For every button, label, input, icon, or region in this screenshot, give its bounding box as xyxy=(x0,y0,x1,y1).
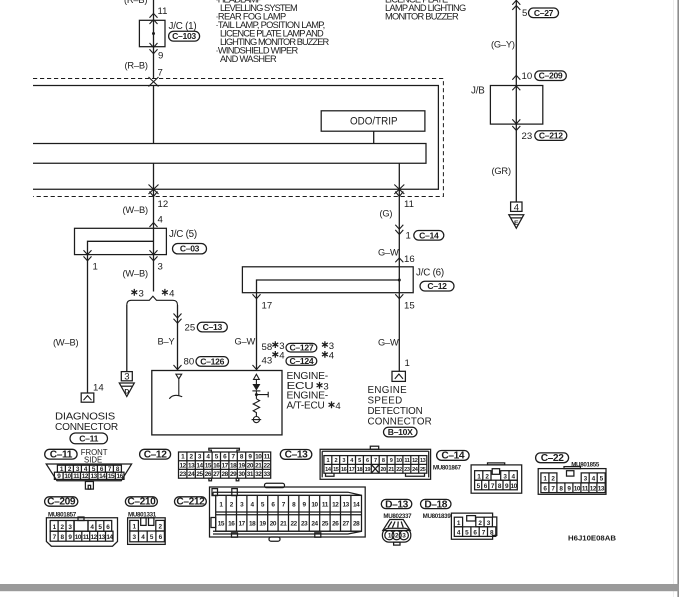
connector C-11 face view xyxy=(46,464,131,489)
svg-text:7: 7 xyxy=(374,458,377,464)
junction connector J/C(1) box xyxy=(139,20,165,46)
svg-text:(R–B): (R–B) xyxy=(125,61,148,71)
svg-text:23: 23 xyxy=(180,471,187,478)
svg-text:11: 11 xyxy=(73,473,80,480)
svg-text:CONNECTOR: CONNECTOR xyxy=(368,416,432,427)
svg-text:12: 12 xyxy=(158,199,169,210)
svg-text:D–13: D–13 xyxy=(385,499,408,510)
svg-text:6: 6 xyxy=(271,502,275,509)
svg-text:C–212: C–212 xyxy=(539,131,563,141)
wire J/C(5) pin3 down to split xyxy=(153,255,155,292)
svg-text:SPEED: SPEED xyxy=(368,395,403,406)
svg-text:11: 11 xyxy=(158,6,168,17)
svg-text:3: 3 xyxy=(487,520,491,527)
svg-text:1: 1 xyxy=(219,502,223,509)
svg-text:2: 2 xyxy=(551,476,555,483)
svg-text:33: 33 xyxy=(264,471,271,478)
connector label C-22 stadium xyxy=(536,453,569,463)
meter internal bus band xyxy=(33,144,426,164)
svg-text:5: 5 xyxy=(150,534,154,541)
connector code B-10X stadium xyxy=(384,427,418,437)
ODO/TRIP box xyxy=(321,111,425,131)
svg-text:14: 14 xyxy=(325,467,332,473)
svg-text:2: 2 xyxy=(230,502,234,509)
terminal cross at meter top entry xyxy=(149,77,159,87)
svg-text:4: 4 xyxy=(335,401,341,412)
wire J/C(6) pin15 down to engine speed connector xyxy=(398,293,400,372)
svg-text:12: 12 xyxy=(180,462,187,469)
svg-text:G–W: G–W xyxy=(378,248,399,258)
svg-text:11: 11 xyxy=(264,454,271,461)
svg-text:7: 7 xyxy=(282,502,286,509)
junction block J/B box xyxy=(490,86,542,125)
split bracket *3/*4 xyxy=(127,296,178,305)
svg-text:18: 18 xyxy=(230,462,237,469)
svg-text:5: 5 xyxy=(522,8,527,19)
svg-text:D–18: D–18 xyxy=(424,499,447,510)
svg-text:A/T-ECU: A/T-ECU xyxy=(287,400,325,411)
svg-text:3: 3 xyxy=(503,474,507,481)
wire through J/C(1) xyxy=(153,20,155,78)
wire inside meter down to bus band xyxy=(153,86,155,144)
svg-text:24: 24 xyxy=(412,467,419,473)
svg-text:1: 1 xyxy=(388,533,392,540)
svg-text:1: 1 xyxy=(133,524,137,531)
svg-text:28: 28 xyxy=(222,471,229,478)
svg-text:2: 2 xyxy=(485,474,489,481)
svg-text:C–124: C–124 xyxy=(289,356,313,366)
svg-text:25: 25 xyxy=(196,471,203,478)
svg-text:9: 9 xyxy=(158,51,163,62)
svg-text:10: 10 xyxy=(311,502,318,509)
svg-text:C–13: C–13 xyxy=(203,322,223,332)
wire ODO/TRIP to bus band xyxy=(373,131,375,143)
svg-text:25: 25 xyxy=(420,467,426,473)
wire diode to resistor with tap xyxy=(256,391,268,399)
terminal chevron inside J/B top xyxy=(512,86,520,90)
label ENGINE SPEED DETECTION CONNECTOR xyxy=(368,385,432,428)
svg-text:1: 1 xyxy=(93,262,98,273)
svg-text:1: 1 xyxy=(53,524,57,531)
wire through J/B xyxy=(515,86,517,203)
svg-text:C–14: C–14 xyxy=(441,451,464,462)
svg-text:6: 6 xyxy=(543,486,547,493)
svg-text:3: 3 xyxy=(240,502,244,509)
svg-text:3: 3 xyxy=(342,458,345,464)
connector code C-03 stadium xyxy=(173,244,207,254)
viewer faint guide line xyxy=(673,0,674,597)
connector code C-127 stadium xyxy=(286,343,317,352)
junction connector J/C(5) box xyxy=(75,228,167,254)
svg-text:2: 2 xyxy=(478,520,482,527)
svg-text:4: 4 xyxy=(329,351,335,362)
svg-text:J/B: J/B xyxy=(471,86,485,97)
svg-text:12: 12 xyxy=(91,534,98,541)
connector C-14 face view xyxy=(471,463,522,493)
svg-text:(W–B): (W–B) xyxy=(53,338,78,348)
svg-text:11: 11 xyxy=(322,502,329,509)
svg-text:32: 32 xyxy=(255,471,262,478)
svg-text:C–126: C–126 xyxy=(200,356,224,366)
svg-text:21: 21 xyxy=(255,462,262,469)
svg-text:(W–B): (W–B) xyxy=(123,205,148,215)
svg-text:15: 15 xyxy=(333,467,339,473)
engine ECU box xyxy=(152,371,282,435)
svg-text:3: 3 xyxy=(124,372,129,383)
svg-text:13: 13 xyxy=(420,458,426,464)
svg-text:J/C (5): J/C (5) xyxy=(169,229,197,240)
svg-text:17: 17 xyxy=(262,301,273,312)
connector C-212 face view xyxy=(210,483,366,541)
inline connector chevrons 25 C-13 xyxy=(174,314,182,324)
svg-text:4: 4 xyxy=(206,454,210,461)
svg-text:4: 4 xyxy=(512,474,516,481)
svg-text:15: 15 xyxy=(108,473,115,480)
svg-text:29: 29 xyxy=(230,471,237,478)
svg-text:18: 18 xyxy=(249,520,256,527)
connector label C-14 stadium xyxy=(437,451,470,461)
svg-text:4: 4 xyxy=(141,534,145,541)
connector D-13 face view xyxy=(382,520,410,546)
terminal chevron at ECU pin 58/43 xyxy=(253,365,261,370)
svg-text:12: 12 xyxy=(332,502,339,509)
svg-text:13: 13 xyxy=(90,473,97,480)
svg-text:5: 5 xyxy=(98,524,102,531)
svg-text:(W–B): (W–B) xyxy=(123,269,148,279)
svg-text:C–03: C–03 xyxy=(180,244,200,254)
svg-text:ENGINE: ENGINE xyxy=(368,385,408,396)
svg-text:(GR): (GR) xyxy=(492,166,511,176)
connector label C-212 stadium xyxy=(175,497,207,506)
svg-text:24: 24 xyxy=(188,471,195,478)
svg-text:9: 9 xyxy=(390,458,393,464)
connector code C-209 stadium xyxy=(535,71,567,81)
connector code C-103 stadium xyxy=(169,31,200,41)
svg-text:6: 6 xyxy=(484,483,488,490)
connector code C-14 stadium xyxy=(414,231,444,241)
svg-text:5: 5 xyxy=(261,502,265,509)
svg-text:C–13: C–13 xyxy=(285,450,308,461)
inline connector chevrons 5 C-27 xyxy=(512,0,520,10)
svg-text:9: 9 xyxy=(68,534,72,541)
connector C-12 face view xyxy=(179,448,271,481)
engine speed detection connector symbol xyxy=(392,371,405,381)
terminal chevron at J/C(6) pin15 bottom xyxy=(395,294,403,298)
svg-text:7: 7 xyxy=(491,483,495,490)
diagnosis connector symbol xyxy=(81,393,94,402)
svg-text:1: 1 xyxy=(477,474,481,481)
svg-text:4: 4 xyxy=(251,502,255,509)
svg-text:DETECTION: DETECTION xyxy=(368,406,423,417)
svg-text:26: 26 xyxy=(332,520,339,527)
svg-text:14: 14 xyxy=(196,462,203,469)
svg-text:D: D xyxy=(124,389,129,396)
connector label C-209 stadium xyxy=(45,497,78,506)
inline connector chevrons 1 C-14 xyxy=(395,225,403,235)
svg-text:10: 10 xyxy=(396,458,402,464)
right feed wire from top xyxy=(515,0,517,86)
svg-text:4: 4 xyxy=(279,351,285,362)
svg-text:22: 22 xyxy=(291,520,298,527)
svg-text:4: 4 xyxy=(158,215,164,226)
J/C(5) internal link to pin 1 xyxy=(88,241,154,254)
svg-text:C–127: C–127 xyxy=(289,343,313,353)
svg-text:MONITOR BUZZER: MONITOR BUZZER xyxy=(385,12,459,22)
terminal cross at meter bottom left exit xyxy=(149,185,159,197)
svg-text:7: 7 xyxy=(482,530,486,537)
svg-text:19: 19 xyxy=(259,520,266,527)
ground symbol E xyxy=(509,215,524,229)
svg-text:5: 5 xyxy=(465,530,469,537)
svg-text:14: 14 xyxy=(99,473,106,480)
svg-text:11: 11 xyxy=(582,486,589,493)
wire through J/C(5) right xyxy=(153,228,155,254)
wire J/C(5) pin1 down to diagnosis connector xyxy=(87,255,89,393)
svg-text:H6J10E08AB: H6J10E08AB xyxy=(568,534,616,543)
svg-text:12: 12 xyxy=(82,473,89,480)
svg-text:3: 3 xyxy=(584,476,588,483)
svg-text:13: 13 xyxy=(343,502,350,509)
svg-text:6: 6 xyxy=(366,458,369,464)
svg-text:10: 10 xyxy=(75,534,82,541)
svg-text:3: 3 xyxy=(68,524,72,531)
connector C-22 face view xyxy=(538,467,606,495)
svg-text:10: 10 xyxy=(574,486,581,493)
svg-text:4: 4 xyxy=(514,202,520,213)
svg-text:11: 11 xyxy=(404,199,414,210)
svg-text:17: 17 xyxy=(239,520,246,527)
svg-text:3: 3 xyxy=(198,454,202,461)
svg-text:B–10X: B–10X xyxy=(388,427,413,437)
svg-text:C–14: C–14 xyxy=(419,230,439,240)
ECU internal network right: triangle, diode, junction, resistor, output xyxy=(254,374,260,384)
svg-text:4: 4 xyxy=(592,476,596,483)
svg-text:G–W: G–W xyxy=(235,337,256,347)
wire branch *3 down to ground D xyxy=(126,305,128,372)
connector label C-11 stadium xyxy=(45,449,77,459)
connector code C-124 stadium xyxy=(286,357,317,366)
terminal chevron at J/C(6) pin17 bottom xyxy=(253,294,261,298)
connector C-210 face view xyxy=(128,518,166,545)
svg-text:ODO/TRIP: ODO/TRIP xyxy=(350,116,398,128)
svg-text:8: 8 xyxy=(559,486,563,493)
svg-text:14: 14 xyxy=(93,383,104,394)
svg-text:19: 19 xyxy=(365,467,371,473)
label ENGINE-ECU*3 / ENGINE-A/T-ECU*4 xyxy=(287,371,329,411)
output circle xyxy=(253,417,259,423)
svg-text:3: 3 xyxy=(323,382,328,393)
junction connector J/C(6) box xyxy=(242,267,413,293)
svg-text:9: 9 xyxy=(248,454,252,461)
svg-text:(G–Y): (G–Y) xyxy=(491,40,515,50)
terminal chevrons at J/C(5) pin3 bottom xyxy=(150,250,158,261)
svg-text:2: 2 xyxy=(61,524,65,531)
terminal chevrons at J/B bottom xyxy=(512,119,520,130)
terminal chevron at J/C(6) top xyxy=(395,258,403,262)
svg-text:1: 1 xyxy=(327,458,330,464)
svg-text:C–210: C–210 xyxy=(127,497,156,508)
svg-text:23: 23 xyxy=(522,131,533,142)
svg-text:9: 9 xyxy=(567,486,571,493)
svg-text:C–27: C–27 xyxy=(534,8,554,18)
svg-text:16: 16 xyxy=(228,520,235,527)
svg-text:5: 5 xyxy=(358,458,361,464)
svg-text:28: 28 xyxy=(353,520,360,527)
svg-text:17: 17 xyxy=(222,462,229,469)
svg-text:2: 2 xyxy=(334,458,337,464)
svg-text:1: 1 xyxy=(543,476,547,483)
svg-text:27: 27 xyxy=(343,520,350,527)
svg-text:58: 58 xyxy=(262,342,273,353)
svg-text:3: 3 xyxy=(158,262,163,273)
connector code C-27 stadium xyxy=(529,8,559,18)
svg-text:MU801839: MU801839 xyxy=(423,513,452,520)
svg-text:MU801855: MU801855 xyxy=(571,461,600,468)
svg-text:8: 8 xyxy=(292,502,296,509)
svg-text:2: 2 xyxy=(395,533,399,540)
svg-text:10: 10 xyxy=(511,483,518,490)
svg-text:43: 43 xyxy=(262,356,273,367)
svg-text:7: 7 xyxy=(232,454,236,461)
svg-text:4: 4 xyxy=(169,289,175,300)
svg-text:16: 16 xyxy=(404,254,415,265)
combination meter dashed outline xyxy=(33,79,443,197)
combination meter solid inner box xyxy=(33,86,438,190)
svg-text:8: 8 xyxy=(382,458,385,464)
connector code C-126 stadium xyxy=(196,357,229,367)
terminal chevrons at J/C(5) pin1 bottom xyxy=(84,250,92,261)
ground symbol D xyxy=(119,383,134,397)
svg-text:3: 3 xyxy=(139,289,144,300)
svg-text:E: E xyxy=(514,220,519,227)
bulleted system list top xyxy=(216,0,330,64)
svg-text:C–212: C–212 xyxy=(176,497,205,508)
wire meter to J/C(5) xyxy=(153,196,155,228)
second system list top right xyxy=(385,0,466,22)
svg-text:9: 9 xyxy=(505,483,509,490)
svg-text:9: 9 xyxy=(303,502,307,509)
svg-text:4: 4 xyxy=(90,524,94,531)
svg-text:11: 11 xyxy=(404,458,409,464)
svg-text:26: 26 xyxy=(205,471,212,478)
wire (R-B) from page top to J/C(1) xyxy=(153,0,155,20)
svg-text:6: 6 xyxy=(473,530,477,537)
connector code C-11 stadium xyxy=(70,433,108,444)
svg-text:C–11: C–11 xyxy=(50,449,73,460)
connector code C-212 stadium xyxy=(535,131,567,141)
svg-text:C–11: C–11 xyxy=(79,434,98,444)
svg-text:5: 5 xyxy=(600,476,604,483)
svg-text:20: 20 xyxy=(380,467,386,473)
connector D-18 face view xyxy=(451,513,496,539)
svg-text:30: 30 xyxy=(238,471,245,478)
svg-text:80: 80 xyxy=(184,357,195,368)
svg-text:11: 11 xyxy=(83,534,90,541)
svg-text:1: 1 xyxy=(181,454,185,461)
svg-text:C–209: C–209 xyxy=(539,71,563,81)
connector label C-210 stadium xyxy=(125,497,157,506)
junction dot in J/C(6) xyxy=(398,279,401,282)
svg-text:15: 15 xyxy=(218,520,225,527)
svg-text:23: 23 xyxy=(404,467,410,473)
svg-text:7: 7 xyxy=(551,486,555,493)
svg-text:15: 15 xyxy=(404,301,415,312)
svg-text:G–W: G–W xyxy=(378,338,399,348)
svg-text:14: 14 xyxy=(106,534,113,541)
svg-text:C–103: C–103 xyxy=(172,31,196,41)
svg-text:16: 16 xyxy=(213,462,220,469)
svg-text:17: 17 xyxy=(349,467,355,473)
connector code C-12 stadium xyxy=(420,281,454,291)
svg-text:8: 8 xyxy=(498,483,502,490)
svg-text:8: 8 xyxy=(61,534,65,541)
svg-text:22: 22 xyxy=(396,467,402,473)
svg-text:4: 4 xyxy=(457,530,461,537)
svg-text:19: 19 xyxy=(238,462,245,469)
svg-text:1: 1 xyxy=(457,520,461,527)
label *4 xyxy=(162,289,168,296)
wire meter pin11 down to C-14 xyxy=(398,196,400,266)
svg-text:6: 6 xyxy=(159,534,163,541)
svg-text:SIDE: SIDE xyxy=(84,456,102,465)
terminal chevron at ECU pin 80 xyxy=(174,365,182,370)
connector label C-12 stadium xyxy=(140,449,171,459)
svg-text:C–12: C–12 xyxy=(144,449,167,460)
svg-text:21: 21 xyxy=(388,467,394,473)
connector label D-18 stadium xyxy=(421,499,452,508)
svg-text:AND WASHER: AND WASHER xyxy=(220,54,277,64)
svg-text:8: 8 xyxy=(240,454,244,461)
svg-text:10: 10 xyxy=(255,454,262,461)
svg-text:24: 24 xyxy=(311,520,318,527)
svg-text:20: 20 xyxy=(247,462,254,469)
svg-text:1: 1 xyxy=(406,231,411,242)
ECU internal probe symbol left xyxy=(169,374,182,399)
svg-text:C–12: C–12 xyxy=(427,281,447,291)
svg-text:10: 10 xyxy=(522,71,533,82)
connector C-209 face view xyxy=(46,517,117,546)
svg-text:C–209: C–209 xyxy=(47,497,76,508)
svg-text:6: 6 xyxy=(223,454,227,461)
svg-text:25: 25 xyxy=(322,520,329,527)
connector code C-13 stadium xyxy=(197,322,227,332)
svg-text:4: 4 xyxy=(350,458,354,464)
resistor zigzag xyxy=(253,399,259,417)
svg-text:13: 13 xyxy=(598,486,605,493)
svg-text:5: 5 xyxy=(477,483,481,490)
svg-text:18: 18 xyxy=(357,467,363,473)
wire from band to meter bottom left xyxy=(153,163,155,196)
svg-text:5: 5 xyxy=(215,454,219,461)
svg-text:23: 23 xyxy=(301,520,308,527)
svg-text:21: 21 xyxy=(280,520,287,527)
svg-text:1: 1 xyxy=(405,358,410,369)
ground terminal 4 box xyxy=(511,202,522,211)
svg-text:31: 31 xyxy=(247,471,254,478)
svg-text:CONNECTOR: CONNECTOR xyxy=(55,422,118,433)
svg-text:2: 2 xyxy=(159,524,163,531)
svg-text:12: 12 xyxy=(412,458,418,464)
wire from band to meter bottom right xyxy=(398,163,400,196)
viewer right edge line xyxy=(677,0,679,597)
diode filled xyxy=(252,384,260,391)
terminal chevrons at J/C(1) bottom xyxy=(150,43,158,54)
svg-text:20: 20 xyxy=(270,520,277,527)
svg-text:C–22: C–22 xyxy=(541,453,564,464)
svg-text:14: 14 xyxy=(353,502,360,509)
junction dot in J/C(1) xyxy=(152,32,155,35)
terminal chevrons at J/C(1) top xyxy=(150,13,158,24)
